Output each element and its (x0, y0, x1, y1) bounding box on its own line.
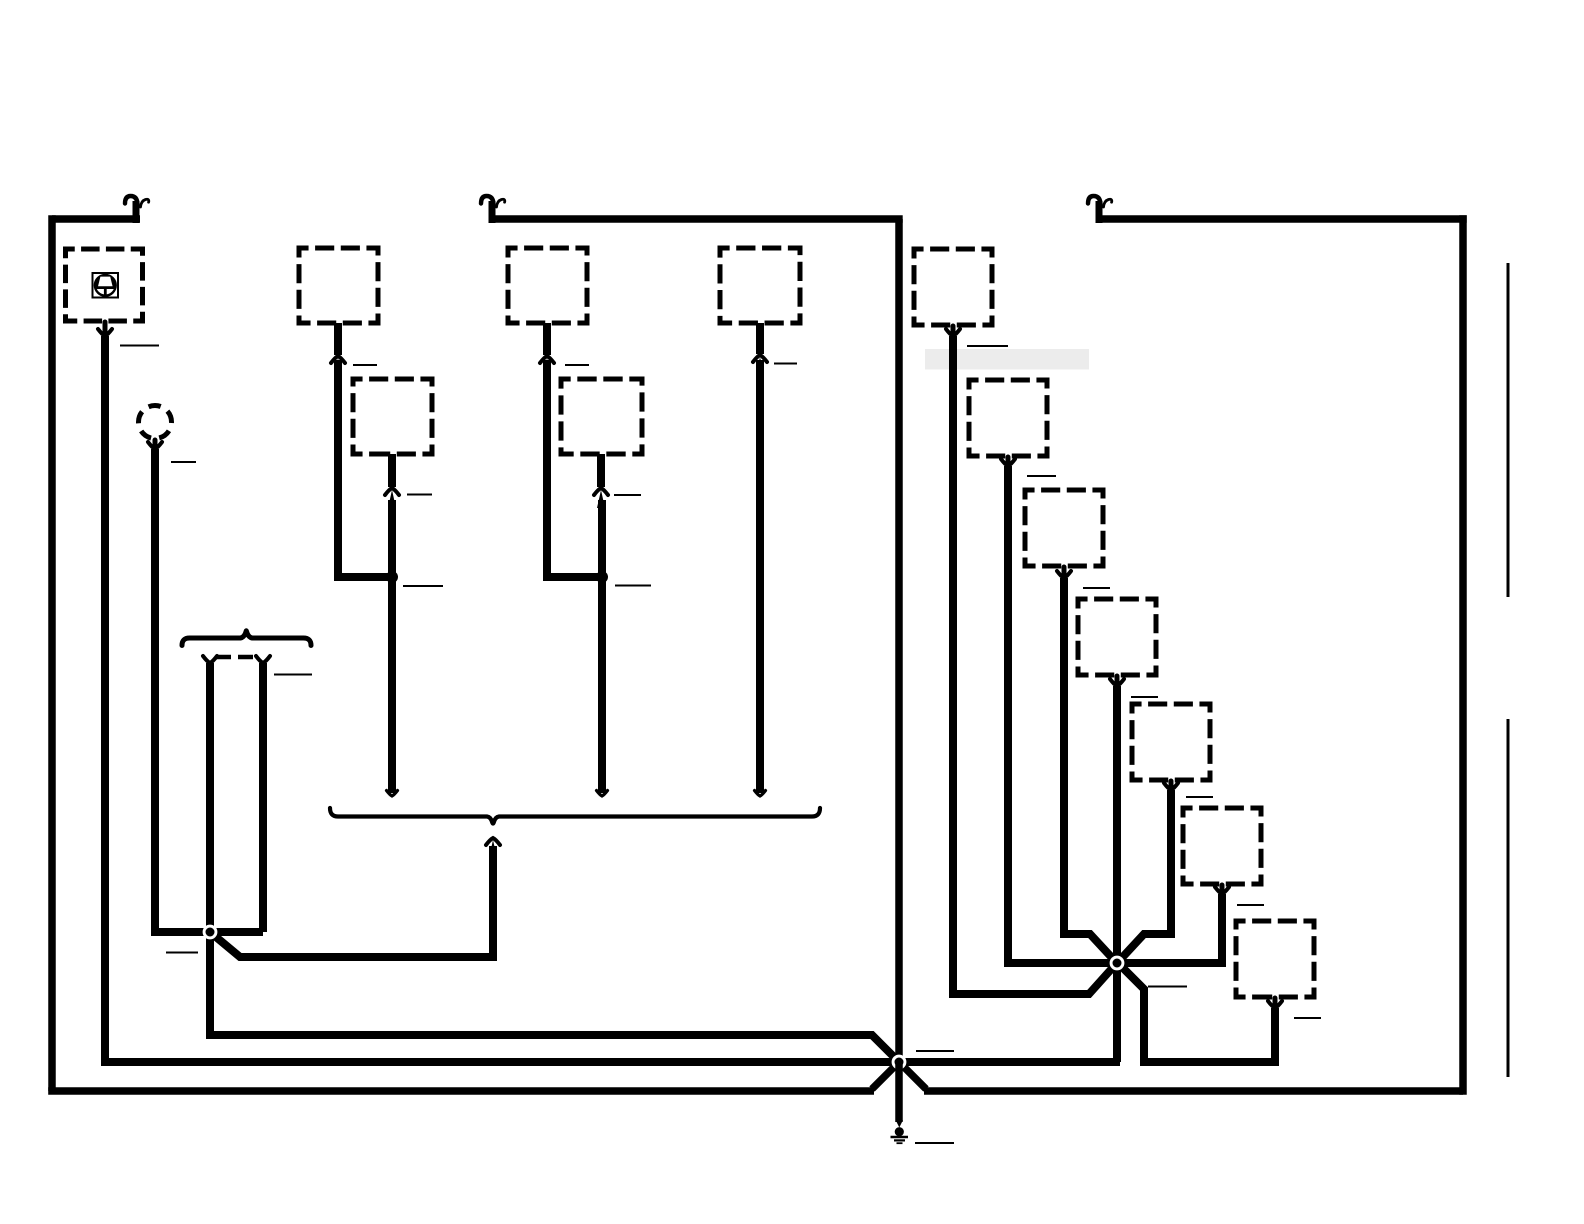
wire: R6 leg and right ray of J4 (1113, 894, 1222, 963)
label line B4 (774, 363, 797, 365)
component box R4 (1078, 599, 1156, 675)
label line R3 (1083, 587, 1110, 589)
wire end flare (col4) (755, 791, 766, 797)
arrow into right bundle wire (256, 656, 270, 663)
continuation hook 1 (125, 196, 149, 223)
arrow into B3b (594, 454, 608, 508)
arrow from R3 (1057, 567, 1071, 578)
component box B4 (720, 248, 800, 323)
label line of J1 (166, 952, 198, 954)
arrow from R7 (1268, 998, 1282, 1008)
arrow from R5 (1164, 781, 1178, 790)
label line of J0 (916, 1050, 954, 1052)
wire: middle section top border (492, 215, 903, 223)
label line of J3 (615, 585, 651, 587)
arrow into under-brace pointer (486, 838, 500, 858)
arrow from R2 (1001, 457, 1015, 466)
arrow into B2a (331, 323, 345, 376)
component box R2 (969, 380, 1047, 456)
label line B3a (565, 364, 589, 366)
label line of B1 wire (120, 345, 159, 347)
label line R7 (1294, 1017, 1321, 1019)
arrow into B4 (753, 323, 767, 375)
wire: right border (1459, 215, 1467, 1094)
wire: right section top border (1099, 215, 1467, 223)
change bar lower (1507, 719, 1510, 1077)
component box B1 (sensor) (66, 249, 143, 321)
arrow into left bundle wire (203, 656, 217, 663)
wire end flare (col3) (597, 791, 608, 797)
component box R1 (914, 249, 992, 325)
wire: J1 diag to under-brace pointer (210, 846, 493, 957)
wire: R7 leg around to J4 (1119, 964, 1275, 1062)
arrow into B3a (540, 323, 554, 376)
wire: B2b leg through J2 down (388, 500, 396, 793)
over-brace (bundle) (182, 631, 311, 646)
wire: B1 to ground junction (bottom run) (105, 336, 1120, 1062)
label line of J2 (403, 585, 443, 587)
wire: bottom border diag out of ground junction (899, 1062, 926, 1089)
label line R1 (967, 345, 1008, 347)
component box B2a (299, 248, 378, 323)
wire: section divider (895, 219, 903, 1062)
component box B3b (561, 379, 642, 454)
component box R6 (1183, 808, 1261, 884)
arrow from R4 (1110, 676, 1124, 686)
label line R5 (1186, 796, 1213, 798)
wire: bottom border diag into ground junction (872, 1062, 899, 1089)
label line of J4 (1148, 986, 1187, 988)
label line R2 (1027, 475, 1056, 477)
wire: bottom border left (48, 1087, 874, 1095)
label line B2a (353, 364, 377, 366)
component box R5 (1132, 704, 1210, 780)
wire: bottom border right (924, 1087, 1463, 1095)
dashed connector under brace (216, 655, 257, 660)
component box R3 (1025, 490, 1103, 566)
arrow from R6 (1215, 885, 1229, 894)
junction J2 (386, 571, 398, 583)
continuation hook 2 (481, 196, 505, 223)
wire: left border (48, 215, 56, 1091)
wire: C1 down to junction J1 (155, 449, 263, 932)
label line of bundle (274, 674, 312, 676)
label line R4 (1131, 696, 1158, 698)
wire: R3 leg diag into J4 (1064, 578, 1115, 961)
wire: J1 down and right to ground junction (210, 932, 899, 1062)
arrow from C1 (148, 440, 162, 449)
component circle C1 (139, 406, 172, 439)
wire: B3b leg through J3 down (598, 500, 606, 793)
junction J0 (ground node) (892, 1055, 907, 1070)
label line of ground (915, 1142, 954, 1144)
change bar upper (1507, 263, 1510, 597)
component box R7 (1236, 921, 1314, 997)
arrow from B1 (98, 322, 112, 336)
wire: R4 leg straight through J4 down to bottom run (1113, 686, 1121, 1062)
junction J3 (596, 571, 608, 583)
junction J4 (star) (1110, 956, 1125, 971)
wire: B4 leg down (756, 360, 764, 793)
wire: stub to ground (895, 1062, 903, 1122)
wire: B3a leg to J3 (547, 360, 602, 577)
arrow from R1 (946, 326, 960, 336)
component box B2b (353, 379, 432, 454)
wire: bundle right to J1 (259, 663, 267, 932)
label line B3b (614, 494, 641, 496)
label line R6 (1237, 904, 1264, 906)
junction J1 (203, 925, 218, 940)
icon: steering wheel symbol (93, 273, 119, 298)
wire: B2a leg to J2 (338, 360, 392, 577)
wire end flare (col2) (387, 791, 398, 797)
highlight band (925, 349, 1089, 370)
label line of C1 wire (171, 461, 196, 463)
under-brace (collector) (330, 808, 820, 824)
wire: bundle left to J1 (206, 663, 214, 932)
component box B3a (508, 248, 587, 323)
wire: R2 leg into J4 (1008, 466, 1121, 963)
label line B2b (407, 494, 432, 496)
arrow into B2b (385, 454, 399, 508)
ground (891, 1127, 909, 1143)
wire: left section top border (52, 215, 140, 223)
wire: R1 leg to star junction J4 (953, 336, 1115, 994)
continuation hook 3 (1088, 196, 1112, 223)
wire: R5 leg diag into J4 (1119, 790, 1171, 961)
